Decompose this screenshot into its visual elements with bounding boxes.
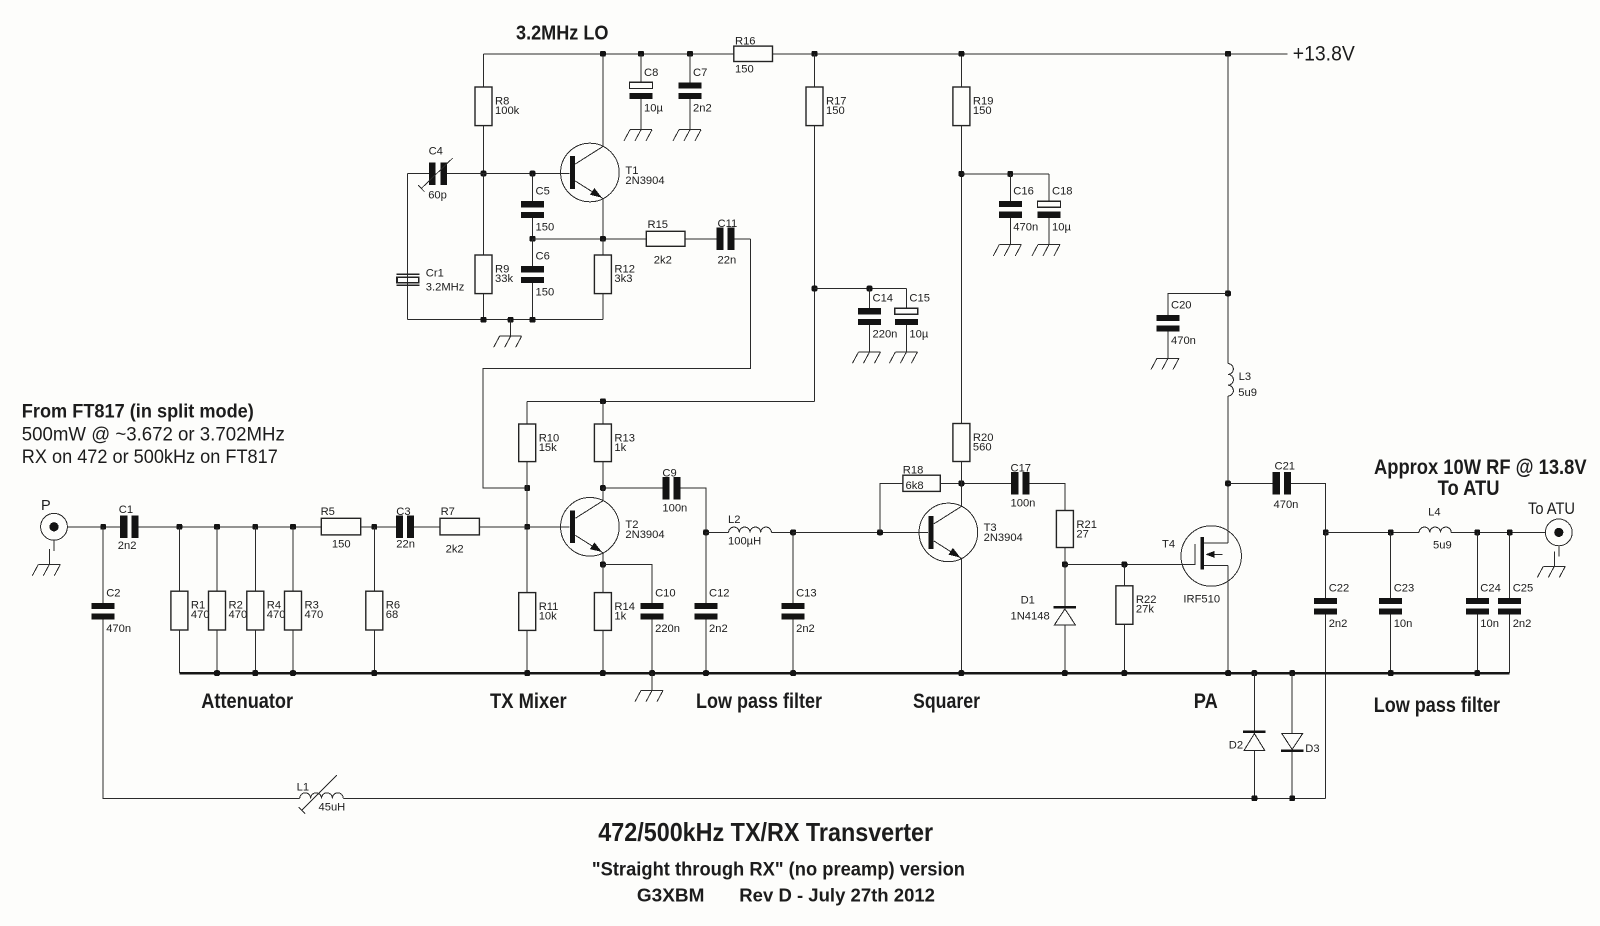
capacitor C17 xyxy=(1011,462,1036,509)
svg-text:C17: C17 xyxy=(1011,462,1032,474)
svg-text:6k8: 6k8 xyxy=(906,480,924,492)
svg-text:2n2: 2n2 xyxy=(1513,618,1532,630)
wire xyxy=(361,526,397,528)
inductor L4 5u9 xyxy=(1419,507,1452,552)
junction xyxy=(524,670,530,676)
wire xyxy=(1064,564,1066,606)
resistor R13 xyxy=(594,424,635,462)
resistor R7 xyxy=(440,506,479,555)
ground xyxy=(889,352,917,363)
wire xyxy=(793,531,928,533)
svg-text:C16: C16 xyxy=(1013,186,1034,198)
capacitor C13 xyxy=(782,587,817,635)
junction xyxy=(877,530,883,536)
wire xyxy=(479,526,569,528)
junction xyxy=(959,51,965,57)
diode D2 xyxy=(1229,731,1266,752)
junction xyxy=(1062,670,1068,676)
svg-text:G3XBM: G3XBM xyxy=(637,885,705,906)
ground xyxy=(673,130,701,141)
wire xyxy=(292,630,294,673)
wire xyxy=(1227,54,1229,364)
wire xyxy=(1325,615,1327,799)
svg-text:C9: C9 xyxy=(662,467,676,479)
capacitor C2 xyxy=(92,587,131,635)
svg-text:Approx 10W RF @ 13.8V: Approx 10W RF @ 13.8V xyxy=(1374,456,1587,479)
junction xyxy=(524,485,530,491)
svg-text:C24: C24 xyxy=(1480,582,1501,594)
svg-text:Cr1: Cr1 xyxy=(426,268,444,280)
resistor R15 xyxy=(646,219,685,266)
svg-text:2k2: 2k2 xyxy=(446,543,464,555)
wire xyxy=(1291,483,1326,532)
svg-text:C10: C10 xyxy=(655,587,676,599)
wire xyxy=(681,488,706,532)
svg-text:470: 470 xyxy=(267,609,286,621)
wire xyxy=(1390,615,1392,673)
wire xyxy=(102,527,104,603)
svg-text:L1: L1 xyxy=(297,782,309,794)
wire xyxy=(527,400,814,402)
svg-text:3k3: 3k3 xyxy=(614,273,632,285)
wire xyxy=(1123,624,1125,673)
junction xyxy=(1289,670,1295,676)
wire xyxy=(532,218,534,239)
svg-text:1k: 1k xyxy=(614,442,626,454)
wire xyxy=(792,532,794,603)
resistor R5 xyxy=(321,506,361,550)
svg-text:L3: L3 xyxy=(1239,371,1251,383)
wire xyxy=(905,325,907,352)
junction xyxy=(530,317,536,323)
wire xyxy=(814,126,816,402)
wire xyxy=(526,401,528,424)
svg-text:2n2: 2n2 xyxy=(118,540,137,552)
wire xyxy=(1558,546,1560,557)
inductor L2 100µH xyxy=(728,514,771,547)
svg-text:Squarer: Squarer xyxy=(913,690,980,713)
ground xyxy=(1537,552,1565,578)
svg-text:10µ: 10µ xyxy=(1052,221,1071,233)
resistor R1 xyxy=(171,591,210,630)
junction xyxy=(530,236,536,242)
resistor R3 xyxy=(285,591,324,630)
wire xyxy=(905,289,907,309)
wire xyxy=(880,483,903,532)
svg-text:P: P xyxy=(41,498,51,514)
svg-text:R5: R5 xyxy=(321,506,335,518)
wire xyxy=(1048,174,1050,201)
svg-text:"Straight through RX" (no prea: "Straight through RX" (no preamp) versio… xyxy=(592,859,965,880)
junction xyxy=(1252,795,1258,801)
svg-text:R16: R16 xyxy=(735,36,756,48)
wire xyxy=(689,54,691,83)
wire xyxy=(1227,396,1229,543)
wire xyxy=(484,173,570,175)
wire xyxy=(532,283,534,320)
junction xyxy=(252,670,258,676)
wire xyxy=(960,462,962,484)
resistor R10 xyxy=(519,424,560,462)
ground xyxy=(1032,245,1060,256)
wire xyxy=(1509,615,1511,673)
capacitor C11 xyxy=(716,218,737,266)
svg-text:1k: 1k xyxy=(614,611,626,623)
junction xyxy=(1474,670,1480,676)
junction xyxy=(481,317,487,323)
svg-text:22n: 22n xyxy=(718,254,737,266)
wire xyxy=(602,294,604,320)
svg-text:100n: 100n xyxy=(662,503,687,515)
transistor T2 2N3904 xyxy=(561,498,665,557)
svg-text:472/500kHz TX/RX Transverter: 472/500kHz TX/RX Transverter xyxy=(598,817,933,847)
svg-text:C23: C23 xyxy=(1394,582,1415,594)
svg-text:2n2: 2n2 xyxy=(1329,618,1348,630)
capacitor C24 xyxy=(1466,582,1501,630)
capacitor C14 xyxy=(858,293,897,341)
resistor R18 6k8 xyxy=(903,464,941,492)
ground xyxy=(853,352,881,363)
junction xyxy=(812,286,818,292)
wire xyxy=(526,630,528,673)
wire xyxy=(814,54,816,87)
svg-text:100k: 100k xyxy=(495,105,520,117)
wire xyxy=(254,630,256,673)
wire xyxy=(1030,483,1065,510)
wire xyxy=(602,239,604,255)
junction xyxy=(600,236,606,242)
wire xyxy=(1009,174,1011,201)
capacitor C18 xyxy=(1038,186,1073,234)
wire xyxy=(1509,532,1511,598)
capacitor C10 xyxy=(641,587,680,635)
wire xyxy=(961,173,1049,175)
svg-text:220n: 220n xyxy=(655,623,680,635)
wire xyxy=(603,487,662,489)
wire xyxy=(940,482,1011,484)
wire xyxy=(216,527,218,591)
wire xyxy=(602,553,604,565)
wire xyxy=(373,630,375,673)
ground xyxy=(624,130,652,141)
svg-text:C15: C15 xyxy=(909,293,930,305)
junction xyxy=(1122,562,1128,568)
ground xyxy=(993,245,1021,256)
wire xyxy=(960,126,962,424)
wire xyxy=(651,620,653,674)
wire xyxy=(484,53,1288,55)
junction xyxy=(1225,670,1231,676)
wire xyxy=(483,294,485,320)
junction xyxy=(790,670,796,676)
wire xyxy=(407,174,409,320)
svg-text:+13.8V: +13.8V xyxy=(1293,41,1356,65)
junction xyxy=(1122,670,1128,676)
svg-text:C21: C21 xyxy=(1275,461,1296,473)
svg-text:60p: 60p xyxy=(428,190,447,202)
svg-text:C22: C22 xyxy=(1329,582,1350,594)
wire xyxy=(216,630,218,673)
junction xyxy=(1062,562,1068,568)
wire xyxy=(532,239,534,266)
svg-text:45uH: 45uH xyxy=(319,801,346,813)
svg-text:470: 470 xyxy=(191,609,210,621)
svg-text:C6: C6 xyxy=(536,251,550,263)
wire xyxy=(179,672,1509,675)
wire xyxy=(705,532,707,603)
svg-text:D1: D1 xyxy=(1021,595,1035,607)
svg-text:Low pass filter: Low pass filter xyxy=(696,690,822,713)
svg-text:To ATU: To ATU xyxy=(1528,499,1575,518)
svg-text:150: 150 xyxy=(536,286,555,298)
svg-text:Low pass filter: Low pass filter xyxy=(1374,694,1500,717)
ground xyxy=(494,320,522,348)
junction xyxy=(214,670,220,676)
svg-text:150: 150 xyxy=(536,221,555,233)
wire xyxy=(602,199,604,239)
svg-text:C11: C11 xyxy=(718,218,738,230)
connector To ATU xyxy=(1528,499,1575,546)
resistor R20 xyxy=(953,424,994,462)
resistor R19 xyxy=(953,87,994,126)
wire xyxy=(689,99,691,130)
junction xyxy=(508,317,514,323)
junction xyxy=(252,524,258,530)
wire xyxy=(960,54,962,87)
capacitor C15 xyxy=(895,293,930,341)
svg-text:From FT817 (in split mode): From FT817 (in split mode) xyxy=(22,400,254,422)
svg-text:PA: PA xyxy=(1194,690,1218,713)
junction xyxy=(1388,530,1394,536)
junction xyxy=(1007,171,1013,177)
svg-text:C8: C8 xyxy=(644,67,658,79)
junction xyxy=(290,524,296,530)
wire xyxy=(706,531,729,533)
wire xyxy=(1291,752,1293,799)
svg-text:470n: 470n xyxy=(1013,221,1038,233)
wire xyxy=(640,99,642,130)
ground xyxy=(1151,358,1179,369)
wire xyxy=(373,527,375,591)
capacitor C25 xyxy=(1498,582,1533,630)
svg-text:500mW @ ~3.672 or 3.702MHz: 500mW @ ~3.672 or 3.702MHz xyxy=(22,423,285,445)
resistor R17 xyxy=(806,87,847,126)
wire xyxy=(1168,293,1228,315)
capacitor C16 xyxy=(999,186,1038,234)
svg-text:Attenuator: Attenuator xyxy=(201,690,293,713)
resistor R14 xyxy=(594,593,635,631)
svg-text:10n: 10n xyxy=(1394,618,1413,630)
svg-text:33k: 33k xyxy=(495,273,513,285)
junction xyxy=(1225,51,1231,57)
svg-text:C7: C7 xyxy=(693,67,707,79)
wire xyxy=(602,462,604,488)
svg-text:RX on 472 or 500kHz on FT817: RX on 472 or 500kHz on FT817 xyxy=(22,446,278,468)
inductor L3 5u9 xyxy=(1228,364,1257,400)
wire xyxy=(1476,532,1478,598)
junction xyxy=(1474,530,1480,536)
wire xyxy=(685,238,716,240)
svg-text:27: 27 xyxy=(1076,528,1088,540)
transistor T3 2N3904 xyxy=(919,503,1023,562)
wire xyxy=(602,488,604,501)
junction xyxy=(1323,530,1329,536)
wire xyxy=(960,558,962,673)
capacitor C20 xyxy=(1157,299,1196,347)
wire xyxy=(1064,548,1066,565)
wire xyxy=(960,483,962,506)
wire xyxy=(1065,563,1195,565)
wire xyxy=(1326,531,1419,533)
capacitor C4 (variable 60p) xyxy=(408,146,484,202)
junction xyxy=(1388,670,1394,676)
capacitor C21 xyxy=(1273,461,1299,512)
svg-text:150: 150 xyxy=(332,538,351,550)
resistor R12 xyxy=(594,255,635,294)
capacitor C3 xyxy=(396,506,415,550)
ground xyxy=(32,549,60,576)
capacitor C23 xyxy=(1379,582,1414,630)
wire xyxy=(869,325,871,352)
junction xyxy=(1507,530,1513,536)
svg-text:C1: C1 xyxy=(119,504,133,516)
capacitor C5 xyxy=(521,186,554,234)
junction xyxy=(290,670,296,676)
wire xyxy=(1009,218,1011,245)
junction xyxy=(703,670,709,676)
capacitor C12 xyxy=(695,587,730,635)
svg-text:10µ: 10µ xyxy=(909,328,928,340)
wire xyxy=(53,540,55,551)
junction xyxy=(1225,291,1231,297)
junction xyxy=(1252,670,1258,676)
svg-text:L4: L4 xyxy=(1428,507,1440,519)
svg-text:C2: C2 xyxy=(106,587,120,599)
svg-text:1N4148: 1N4148 xyxy=(1011,611,1050,623)
resistor R6 xyxy=(366,591,400,630)
svg-text:560: 560 xyxy=(973,441,992,453)
junction xyxy=(687,51,693,57)
svg-text:470n: 470n xyxy=(1274,499,1299,511)
svg-text:150: 150 xyxy=(735,63,754,75)
svg-text:470n: 470n xyxy=(106,623,131,635)
wire xyxy=(408,319,603,321)
transistor T1 2N3904 xyxy=(561,143,665,202)
wire xyxy=(1451,531,1545,533)
svg-text:D3: D3 xyxy=(1305,743,1319,755)
svg-text:C5: C5 xyxy=(536,186,550,198)
wire xyxy=(602,630,604,673)
capacitor C1 xyxy=(118,504,139,552)
svg-text:2k2: 2k2 xyxy=(654,254,672,266)
connector P xyxy=(41,498,68,540)
wire xyxy=(1253,673,1255,731)
svg-text:2N3904: 2N3904 xyxy=(625,175,664,187)
wire xyxy=(67,526,120,528)
svg-text:3.2MHz LO: 3.2MHz LO xyxy=(516,22,609,45)
junction xyxy=(638,51,644,57)
wire xyxy=(1228,482,1273,484)
diode D1 1N4148 xyxy=(1011,595,1077,625)
junction xyxy=(600,51,606,57)
svg-text:470: 470 xyxy=(229,609,248,621)
junction xyxy=(1225,481,1231,487)
svg-text:TX Mixer: TX Mixer xyxy=(490,690,567,713)
svg-text:C4: C4 xyxy=(429,146,443,158)
wire xyxy=(1325,532,1327,598)
wire xyxy=(1167,332,1169,359)
svg-text:T4: T4 xyxy=(1162,538,1175,550)
svg-text:R18: R18 xyxy=(903,464,924,476)
svg-text:C25: C25 xyxy=(1513,582,1534,594)
wire xyxy=(1291,673,1293,734)
svg-text:5u9: 5u9 xyxy=(1238,387,1257,399)
wire xyxy=(771,531,793,533)
wire xyxy=(292,527,294,591)
resistor R22 xyxy=(1116,586,1157,625)
wire xyxy=(526,462,528,593)
resistor R9 xyxy=(475,255,513,294)
junction xyxy=(530,171,536,177)
wire xyxy=(640,54,642,83)
wire xyxy=(603,565,652,603)
capacitor C9 xyxy=(662,467,687,514)
junction xyxy=(703,530,709,536)
junction xyxy=(649,670,655,676)
junction xyxy=(177,524,183,530)
svg-text:2n2: 2n2 xyxy=(796,623,815,635)
svg-text:To ATU: To ATU xyxy=(1438,477,1500,500)
junction xyxy=(371,670,377,676)
resistor R4 xyxy=(247,591,286,630)
wire xyxy=(1123,564,1125,585)
junction xyxy=(1289,795,1295,801)
svg-text:470: 470 xyxy=(305,609,324,621)
wire xyxy=(869,289,871,309)
svg-text:Rev D - July 27th 2012: Rev D - July 27th 2012 xyxy=(739,885,935,906)
svg-text:2N3904: 2N3904 xyxy=(625,529,664,541)
svg-text:68: 68 xyxy=(386,609,398,621)
svg-text:R15: R15 xyxy=(648,219,669,231)
svg-text:C12: C12 xyxy=(709,587,730,599)
crystal Cr1 3.2MHz xyxy=(396,268,464,294)
junction xyxy=(867,286,873,292)
svg-text:2n2: 2n2 xyxy=(709,623,728,635)
wire xyxy=(1048,218,1050,245)
resistor R8 xyxy=(475,87,520,126)
svg-text:C3: C3 xyxy=(396,506,410,518)
svg-text:15k: 15k xyxy=(539,442,557,454)
wire xyxy=(602,54,604,147)
svg-text:150: 150 xyxy=(973,105,992,117)
wire xyxy=(414,526,440,528)
junction xyxy=(600,670,606,676)
junction xyxy=(524,524,530,530)
capacitor C22 xyxy=(1314,582,1349,630)
svg-text:R7: R7 xyxy=(441,506,455,518)
svg-text:IRF510: IRF510 xyxy=(1183,593,1220,605)
resistor R21 xyxy=(1056,511,1097,548)
junction xyxy=(812,51,818,57)
resistor R16 xyxy=(734,36,773,76)
wire xyxy=(178,527,180,591)
svg-text:220n: 220n xyxy=(873,328,898,340)
wire xyxy=(1476,615,1478,673)
svg-text:100µH: 100µH xyxy=(728,536,761,548)
junction xyxy=(481,171,487,177)
svg-text:C18: C18 xyxy=(1052,186,1073,198)
wire xyxy=(602,565,604,593)
